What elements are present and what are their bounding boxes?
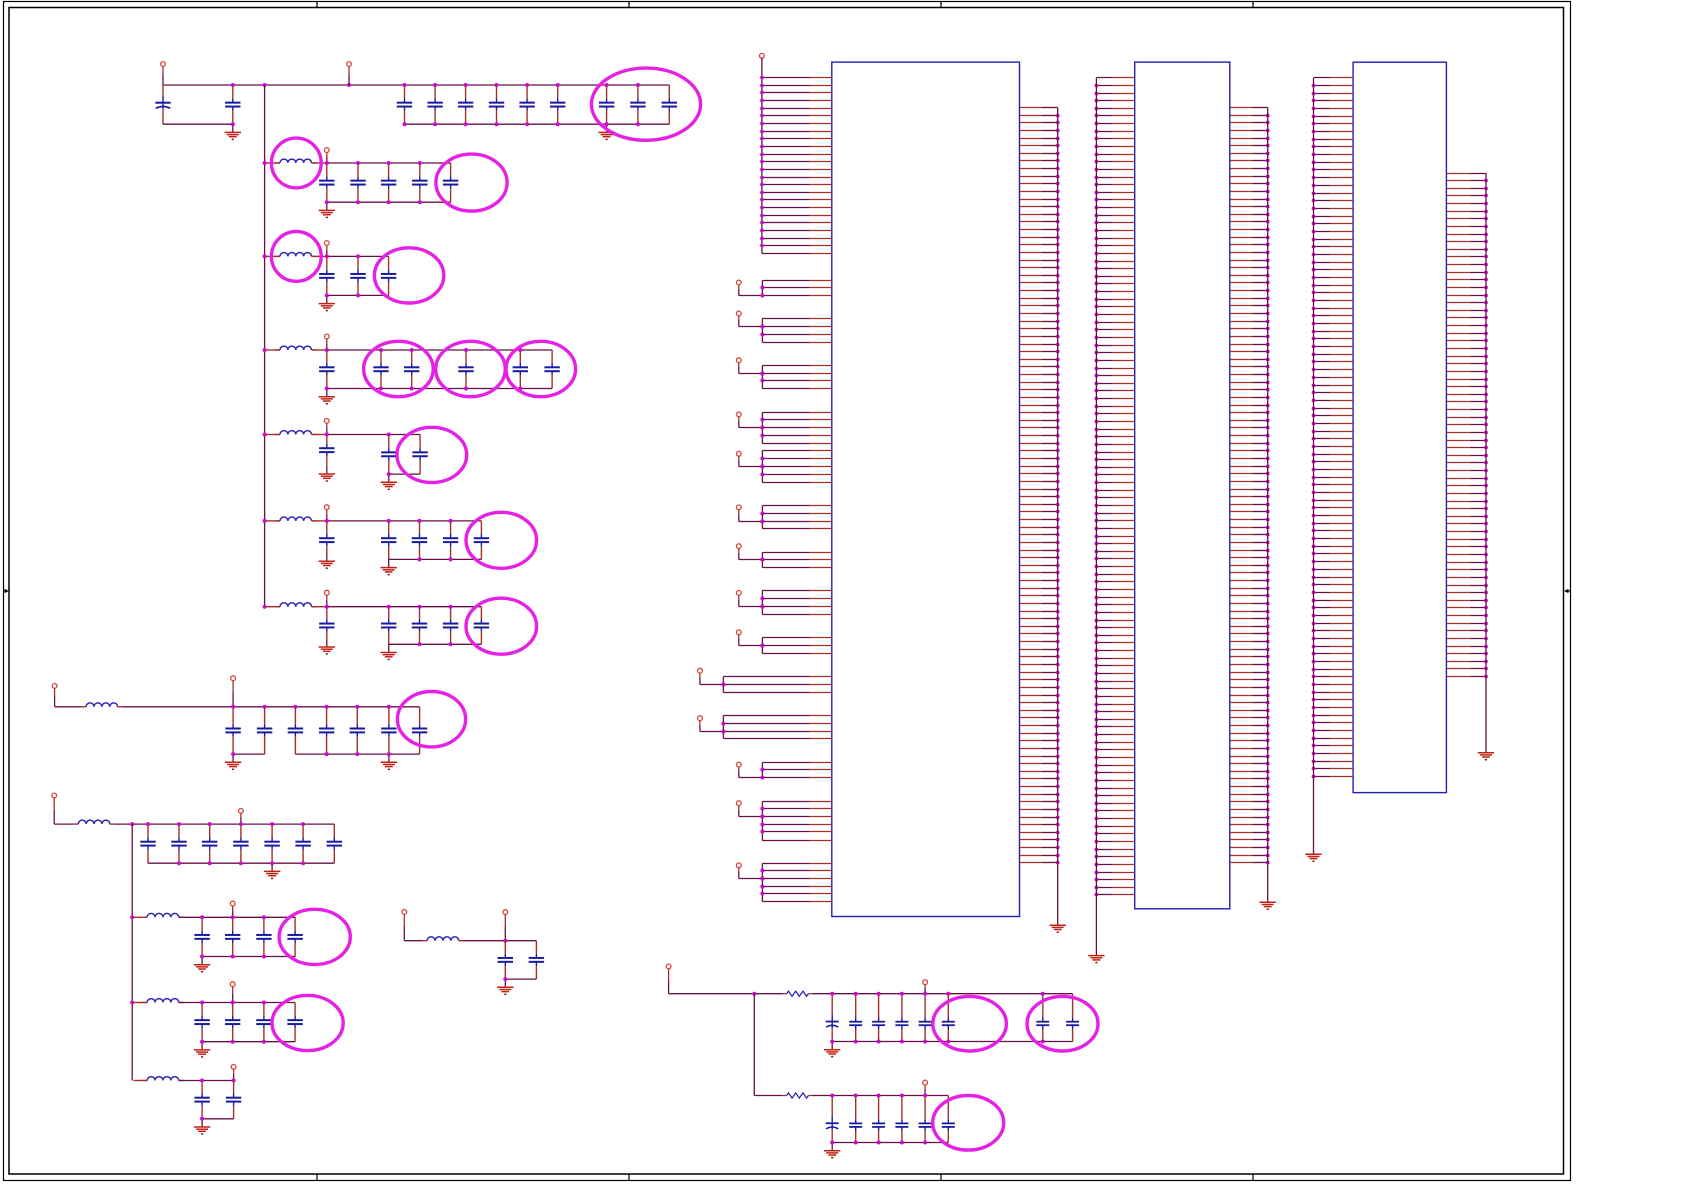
junction <box>263 519 267 523</box>
capacitor C9 <box>599 85 614 124</box>
wire bottom rail <box>202 1118 234 1120</box>
junction <box>464 387 468 391</box>
wire bottom rail <box>505 978 536 980</box>
capacitor C18a <box>194 917 209 956</box>
wire rail <box>327 255 389 257</box>
wire pin group bracket <box>722 716 724 739</box>
wire rail <box>327 606 482 608</box>
junction <box>525 122 529 126</box>
capacitor C11a <box>319 256 334 295</box>
wire U1 left bus <box>761 58 763 253</box>
junction <box>231 915 235 919</box>
U1 left pin group 7 <box>762 553 831 568</box>
junction <box>518 348 522 352</box>
wire <box>134 1002 148 1004</box>
highlight ellipse <box>279 909 350 964</box>
junction <box>418 557 422 561</box>
U2 right pin block <box>1230 108 1270 865</box>
capacitor C15b <box>381 607 396 645</box>
junction <box>387 705 391 709</box>
junction <box>495 83 499 87</box>
capacitor C17d <box>233 824 248 863</box>
wire bottom rail <box>327 388 552 390</box>
capacitor C11c <box>381 256 396 295</box>
wire <box>312 349 327 351</box>
capacitor C14d <box>443 521 458 560</box>
junction <box>379 387 383 391</box>
junction <box>146 822 150 826</box>
junction <box>231 955 235 959</box>
ground <box>319 389 335 404</box>
ground <box>319 553 335 568</box>
capacitor C17a <box>140 824 155 863</box>
wire bottom rail <box>832 1041 1072 1043</box>
junction <box>200 915 204 919</box>
ground <box>194 1042 210 1057</box>
U1 left pin group 10 <box>723 677 831 693</box>
capacitor C15d <box>443 607 458 645</box>
wire pin group bracket <box>761 802 763 841</box>
ground <box>497 979 513 994</box>
IC U1 <box>832 62 1020 916</box>
port P30 <box>736 412 741 428</box>
junction <box>418 161 422 165</box>
wire U3 right bus <box>1485 173 1487 745</box>
junction <box>946 992 950 996</box>
border zone tick bottom <box>940 1174 942 1181</box>
junction <box>418 605 422 609</box>
wire <box>179 1002 202 1004</box>
junction <box>130 822 134 826</box>
capacitor C21a <box>498 941 513 979</box>
wire pin group bracket <box>761 506 763 529</box>
junction <box>721 722 725 726</box>
junction <box>262 915 266 919</box>
junction <box>325 200 329 204</box>
junction <box>900 1141 904 1145</box>
port P39 <box>736 801 741 817</box>
junction <box>556 122 560 126</box>
inductor L14 <box>275 517 317 521</box>
wire rail <box>202 1002 295 1004</box>
junction <box>239 822 243 826</box>
wire pin group bracket <box>761 864 763 902</box>
junction <box>752 992 756 996</box>
junction <box>760 333 764 337</box>
capacitor C22b <box>849 994 862 1042</box>
port P37 <box>698 716 703 732</box>
port P14 <box>324 505 329 521</box>
junction <box>721 730 725 734</box>
capacitor C3 <box>397 85 412 124</box>
junction <box>325 348 329 352</box>
junction <box>760 372 764 376</box>
port P29 <box>736 358 741 374</box>
ground <box>225 124 241 139</box>
junction <box>1041 1040 1045 1044</box>
capacitor C13b <box>381 435 396 475</box>
capacitor C14e <box>474 521 489 560</box>
junction <box>854 1094 858 1098</box>
junction <box>418 200 422 204</box>
ground <box>824 1042 840 1057</box>
junction <box>760 512 764 516</box>
capacitor C2 <box>225 85 240 124</box>
junction <box>760 815 764 819</box>
junction <box>760 892 764 896</box>
junction <box>636 83 640 87</box>
junction <box>556 83 560 87</box>
wire pin group bracket <box>722 677 724 693</box>
junction <box>325 293 329 297</box>
U1 left pin group 3 <box>762 366 831 389</box>
U3 left pin block <box>1312 78 1354 779</box>
port P31 <box>736 451 741 466</box>
border zone tick bottom <box>1252 1174 1254 1181</box>
wire bottom rail <box>327 201 451 203</box>
wire pin group bracket <box>761 451 763 483</box>
wire <box>134 1080 148 1082</box>
capacitor C17f <box>295 824 310 863</box>
wire port P29 to pin group <box>739 373 763 375</box>
junction <box>760 815 764 819</box>
U1 left pin group 8 <box>762 591 831 615</box>
inductor L15 <box>275 603 317 607</box>
capacitor C23f <box>942 1096 955 1143</box>
highlight circle (inductor) <box>271 232 321 282</box>
junction <box>301 822 305 826</box>
capacitor C12d <box>458 350 473 389</box>
junction <box>877 992 881 996</box>
capacitor C12a <box>319 350 334 389</box>
wire top rail net VIN <box>163 84 669 86</box>
capacitor C19b <box>225 1003 240 1042</box>
junction <box>636 122 640 126</box>
port P26 (U1 left bus) <box>760 53 765 60</box>
wire port P33 to pin group <box>739 559 763 561</box>
border centre arrow right <box>1564 589 1571 593</box>
junction <box>379 348 383 352</box>
border zone tick top <box>1252 2 1254 8</box>
junction <box>760 457 764 461</box>
junction <box>760 877 764 881</box>
wire U2 right bus <box>1267 108 1269 895</box>
capacitor C23b <box>849 1096 862 1143</box>
capacitor C16a <box>225 707 240 754</box>
wire <box>266 349 280 351</box>
highlight ellipse <box>397 427 467 482</box>
ground <box>319 466 335 481</box>
junction <box>355 705 359 709</box>
junction <box>387 433 391 437</box>
junction <box>449 642 453 646</box>
junction <box>325 605 329 609</box>
capacitor C6 <box>489 85 504 124</box>
port P35 <box>736 630 741 646</box>
capacitor C18c <box>256 917 271 956</box>
port P33 <box>736 544 741 560</box>
capacitor C17e <box>264 824 279 863</box>
capacitor C15e <box>474 607 489 645</box>
U1 left pin group 12 <box>762 763 831 778</box>
capacitor C17b <box>171 824 186 863</box>
U3 right pin block <box>1446 174 1488 679</box>
port P32 <box>736 505 741 522</box>
ground <box>381 559 397 574</box>
capacitor C16c <box>288 707 303 754</box>
junction <box>231 1001 235 1005</box>
junction <box>605 122 609 126</box>
junction <box>449 605 453 609</box>
junction <box>177 861 181 865</box>
wire rail <box>812 1095 948 1097</box>
junction <box>325 519 329 523</box>
highlight ellipse <box>591 68 700 140</box>
capacitor C23c <box>872 1096 885 1143</box>
polarized capacitor C22a <box>826 994 839 1042</box>
capacitor C14b <box>381 521 396 560</box>
wire port P40 to pin group <box>739 878 763 880</box>
junction <box>433 83 437 87</box>
resistor R2 <box>783 1093 813 1098</box>
capacitor C13c <box>412 435 427 475</box>
port P13 <box>324 419 329 435</box>
wire port P38 to pin group <box>739 777 763 779</box>
border centre arrow left <box>4 589 10 593</box>
junction <box>263 348 267 352</box>
wire <box>669 993 783 995</box>
wire pin group bracket <box>761 366 763 389</box>
junction <box>177 822 181 826</box>
junction <box>605 83 609 87</box>
capacitor C16g <box>412 707 427 754</box>
wire <box>115 823 148 825</box>
junction <box>923 1094 927 1098</box>
ground <box>319 202 335 217</box>
junction <box>900 992 904 996</box>
junction <box>356 254 360 258</box>
junction <box>130 915 134 919</box>
capacitor C12b <box>373 350 388 389</box>
ground <box>319 295 335 310</box>
junction <box>946 1040 950 1044</box>
inductor L10 <box>275 159 317 163</box>
capacitor C18b <box>225 917 240 956</box>
highlight ellipse <box>374 248 443 303</box>
junction <box>760 807 764 811</box>
wire port P28 to pin group <box>739 326 763 328</box>
junction <box>208 861 212 865</box>
junction <box>760 877 764 881</box>
junction <box>232 1079 236 1083</box>
wire rail <box>233 706 420 708</box>
junction <box>410 348 414 352</box>
junction <box>760 558 764 562</box>
capacitor C8 <box>550 85 565 124</box>
junction <box>270 822 274 826</box>
junction <box>231 752 235 756</box>
capacitor C12f <box>544 350 559 389</box>
wire <box>312 520 327 522</box>
capacitor C10b <box>350 163 365 202</box>
ground <box>1088 947 1104 962</box>
IC U2 <box>1135 62 1230 909</box>
ground <box>381 754 397 769</box>
junction <box>387 472 391 476</box>
highlight ellipse <box>436 341 506 396</box>
ground <box>824 1143 840 1158</box>
junction <box>403 122 407 126</box>
wire bottom rail 2 <box>295 753 419 755</box>
ground <box>381 644 397 659</box>
wire U3 left bus <box>1313 78 1315 846</box>
highlight ellipse <box>1027 996 1098 1051</box>
wire bottom rail 1 <box>233 753 265 755</box>
junction <box>923 992 927 996</box>
junction <box>356 200 360 204</box>
port P19 <box>239 809 244 825</box>
junction <box>877 1094 881 1098</box>
capacitor C19a <box>194 1003 209 1042</box>
junction <box>262 1040 266 1044</box>
border zone tick top <box>316 2 318 8</box>
junction <box>760 465 764 469</box>
wire rail <box>327 520 482 522</box>
U1 left pin group 6 <box>762 506 831 529</box>
inductor L16 <box>81 703 123 707</box>
junction <box>403 83 407 87</box>
junction <box>325 705 329 709</box>
highlight ellipse <box>466 598 537 654</box>
capacitor C13a <box>319 435 334 466</box>
capacitor C16e <box>350 707 365 754</box>
port P20 <box>231 1064 236 1080</box>
ground <box>225 754 241 769</box>
junction <box>387 519 391 523</box>
wire port P31 to pin group <box>739 466 763 468</box>
junction <box>760 644 764 648</box>
wire <box>463 940 536 942</box>
wire bottom rail <box>832 1142 948 1144</box>
junction <box>262 955 266 959</box>
junction <box>325 387 329 391</box>
junction <box>239 861 243 865</box>
junction <box>355 752 359 756</box>
capacitor C21b <box>529 941 544 979</box>
junction <box>301 861 305 865</box>
port P17 <box>231 676 236 707</box>
inductor L19 <box>142 999 184 1003</box>
junction <box>356 293 360 297</box>
capacitor C23d <box>895 1096 908 1143</box>
wire <box>404 940 422 942</box>
wire pin group bracket <box>761 553 763 568</box>
port P34 <box>736 591 741 607</box>
port P18 <box>230 901 235 917</box>
capacitor C19c <box>256 1003 271 1042</box>
junction <box>387 200 391 204</box>
junction <box>760 418 764 422</box>
junction <box>464 83 468 87</box>
junction <box>760 426 764 430</box>
junction <box>387 605 391 609</box>
capacitor C20b <box>226 1081 241 1119</box>
junction <box>200 955 204 959</box>
ground <box>194 957 210 972</box>
inductor L18 <box>142 913 184 917</box>
wire pin group bracket <box>761 638 763 654</box>
U1 left pin block <box>760 76 832 254</box>
junction <box>325 433 329 437</box>
junction <box>760 776 764 780</box>
junction <box>760 768 764 772</box>
wire <box>55 706 82 708</box>
junction <box>387 752 391 756</box>
wire <box>179 916 202 918</box>
inductor L20 <box>142 1077 184 1081</box>
wire port P30 to pin group <box>739 427 763 429</box>
port P10 <box>324 148 329 163</box>
wire feed to row 2 <box>753 994 755 1096</box>
junction <box>854 992 858 996</box>
junction <box>433 122 437 126</box>
junction <box>263 161 267 165</box>
wire pin group bracket <box>761 413 763 444</box>
wire rail <box>812 993 1072 995</box>
junction <box>760 294 764 298</box>
capacitor C17c <box>202 824 217 863</box>
border zone tick top <box>628 2 630 8</box>
wire vertical feed bus <box>264 85 266 607</box>
port P23 <box>666 964 671 994</box>
capacitor C12c <box>404 350 419 389</box>
capacitor C22d <box>895 994 908 1042</box>
port P12 <box>324 334 329 350</box>
junction <box>1041 992 1045 996</box>
wire port P32 to pin group <box>739 521 763 523</box>
U1 right pin block <box>1020 108 1060 865</box>
junction <box>325 161 329 165</box>
junction <box>418 642 422 646</box>
junction <box>760 473 764 477</box>
junction <box>263 254 267 258</box>
wire pin group bracket <box>761 591 763 615</box>
wire rail <box>202 916 295 918</box>
capacitor C16d <box>319 707 334 754</box>
wire <box>312 434 327 436</box>
port P16 <box>52 684 57 707</box>
border zone tick top <box>940 2 942 8</box>
capacitor C10d <box>412 163 427 202</box>
wire bottom rail <box>202 956 295 958</box>
junction <box>449 557 453 561</box>
wire vertical feed bus 2 <box>131 824 133 1080</box>
junction <box>200 1040 204 1044</box>
junction <box>449 519 453 523</box>
port P2 <box>347 62 352 85</box>
junction <box>503 977 507 981</box>
capacitor C20a <box>194 1081 209 1119</box>
junction <box>325 254 329 258</box>
junction <box>760 465 764 469</box>
junction <box>760 372 764 376</box>
wire bottom rail <box>389 643 482 645</box>
border zone tick bottom <box>628 1174 630 1181</box>
border zone tick bottom <box>316 1174 318 1181</box>
wire port P37 to pin group <box>700 731 724 733</box>
highlight ellipse <box>364 341 434 396</box>
wire rail <box>327 162 451 164</box>
